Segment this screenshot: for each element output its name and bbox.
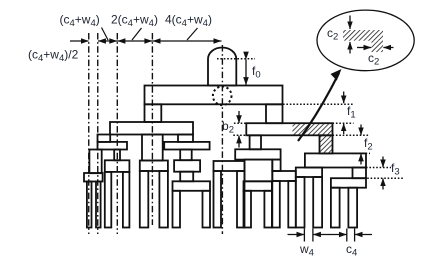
svg-text:2(c4+w4): 2(c4+w4) [111,13,158,30]
svg-text:f3: f3 [391,161,400,178]
svg-text:(c4+w4): (c4+w4) [60,13,100,30]
svg-text:b2: b2 [222,119,234,136]
svg-text:f2: f2 [364,136,373,153]
svg-text:w4: w4 [299,242,314,259]
svg-text:(c4+w4)/2: (c4+w4)/2 [28,48,79,65]
svg-text:f1: f1 [347,104,356,121]
svg-text:f0: f0 [252,64,261,81]
svg-text:4(c4+w4): 4(c4+w4) [165,13,212,30]
svg-text:c4: c4 [346,242,357,259]
